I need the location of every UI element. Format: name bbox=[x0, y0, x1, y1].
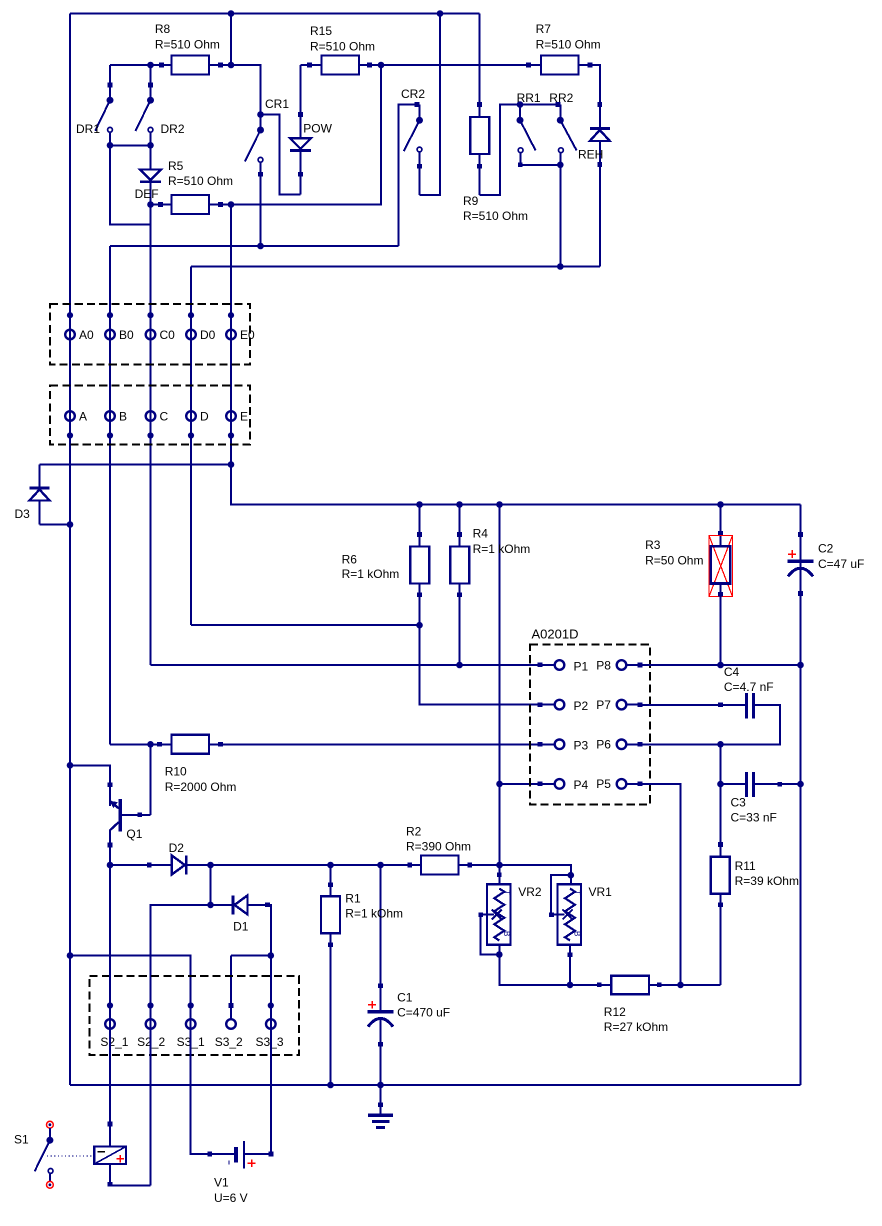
wire rail D3 row bbox=[40, 464, 232, 466]
wire S2_1 column to relay bbox=[108, 865, 113, 1147]
label REH bbox=[578, 148, 603, 162]
plus C2 bbox=[788, 550, 796, 558]
switch CR1 bbox=[245, 115, 264, 247]
capacitor C1 bbox=[368, 865, 394, 1085]
svg-text:R12: R12 bbox=[604, 1005, 626, 1019]
svg-text:R=510 Ohm: R=510 Ohm bbox=[168, 174, 233, 188]
resistor R7 bbox=[541, 56, 579, 75]
wire VR1 top bbox=[500, 865, 571, 884]
pin D bbox=[186, 411, 196, 438]
svg-text:R=510 Ohm: R=510 Ohm bbox=[463, 209, 528, 223]
node rail junction R6 bbox=[416, 501, 423, 508]
switch RR2 bbox=[557, 105, 577, 165]
relay K1 bbox=[94, 1147, 126, 1165]
label P6 bbox=[596, 738, 611, 752]
diode REH bbox=[590, 129, 610, 267]
svg-text:C2: C2 bbox=[818, 542, 834, 556]
svg-text:E: E bbox=[240, 410, 248, 424]
svg-text:P2: P2 bbox=[574, 699, 589, 713]
wire P6 row bbox=[640, 743, 721, 745]
wire S2_2 column to relay loop bbox=[150, 1024, 152, 1185]
svg-text:R1: R1 bbox=[345, 892, 361, 906]
svg-text:T: T bbox=[573, 890, 582, 895]
label T VR2 bbox=[502, 890, 511, 895]
label RR2 bbox=[549, 91, 573, 105]
label R7 bbox=[536, 22, 552, 36]
label C=33 nF bbox=[731, 811, 777, 825]
ground bbox=[368, 1085, 393, 1128]
svg-text:P1: P1 bbox=[574, 659, 589, 673]
node R3 bottom junction bbox=[717, 662, 724, 669]
label C bbox=[160, 410, 169, 424]
label R=50 Ohm bbox=[645, 554, 703, 568]
wire DR1-DR2 bottom link bbox=[110, 144, 151, 146]
label R12 bbox=[604, 1005, 626, 1019]
label U=6 V bbox=[214, 1191, 248, 1205]
wire R8 right pin bbox=[209, 63, 231, 68]
label R=390 Ohm bbox=[406, 840, 471, 854]
diode POW bbox=[290, 65, 311, 194]
wire CR2 top feed bbox=[399, 102, 420, 246]
label Q1 bbox=[126, 827, 142, 841]
node D1 leg junction bbox=[268, 952, 275, 959]
wire R8 junction to CR1 bbox=[231, 65, 261, 115]
svg-text:D1: D1 bbox=[233, 920, 249, 934]
svg-text:S1: S1 bbox=[14, 1133, 29, 1147]
wire R10 right pin bbox=[209, 742, 223, 747]
node R15 right junction bbox=[378, 62, 385, 69]
label CR2 bbox=[401, 87, 425, 101]
capacitor C3 bbox=[721, 772, 801, 797]
wire R7 left pin bbox=[526, 63, 541, 68]
node R8 right junction bbox=[228, 62, 235, 69]
wire supply rail bbox=[231, 465, 801, 505]
wire P5 row down bbox=[640, 784, 681, 985]
label R10 bbox=[165, 765, 187, 779]
pin S3_1 bbox=[186, 1002, 196, 1028]
node D2-D1 junction bbox=[207, 862, 214, 869]
resistor R10 bbox=[172, 735, 210, 754]
svg-text:R2: R2 bbox=[406, 825, 422, 839]
label POW bbox=[303, 122, 332, 136]
wire D1 branch left bbox=[151, 905, 211, 1024]
wire RR top link bbox=[520, 102, 560, 107]
node C3 left junction bbox=[717, 781, 724, 788]
node Q1 collector junction on border bbox=[67, 762, 74, 769]
pin S3_2 bbox=[226, 1003, 236, 1029]
wire VR2 bottom to R12 row bbox=[499, 955, 570, 985]
label P3 bbox=[574, 739, 589, 753]
svg-text:C1: C1 bbox=[397, 991, 413, 1005]
label D bbox=[200, 410, 209, 424]
transistor Q1 bbox=[108, 765, 151, 865]
wire R5 left pin bbox=[151, 202, 172, 207]
svg-text:R=27 kOhm: R=27 kOhm bbox=[604, 1020, 668, 1034]
wire RR2 bottom down bbox=[559, 165, 561, 267]
svg-text:C=33 nF: C=33 nF bbox=[731, 811, 777, 825]
svg-text:A0201D: A0201D bbox=[532, 627, 579, 642]
svg-text:REH: REH bbox=[578, 148, 603, 162]
svg-text:T: T bbox=[502, 890, 511, 895]
wire S3_2 jog bbox=[231, 955, 271, 957]
node R8 left junction bbox=[147, 62, 154, 69]
plus C1 bbox=[368, 1001, 376, 1009]
pin B0 bbox=[105, 312, 115, 339]
svg-text:C=4.7 nF: C=4.7 nF bbox=[724, 680, 774, 694]
label R=39 kOhm bbox=[735, 874, 799, 888]
node R10 left junction bbox=[147, 741, 154, 748]
label C=470 uF bbox=[397, 1006, 450, 1020]
svg-text:P5: P5 bbox=[596, 777, 611, 791]
svg-text:C=47 uF: C=47 uF bbox=[818, 557, 864, 571]
node rail junction R3 bbox=[717, 501, 724, 508]
wire P4 row bbox=[500, 782, 543, 787]
svg-text:R11: R11 bbox=[735, 859, 756, 873]
label RR1 bbox=[517, 91, 541, 105]
node D1 left junction bbox=[207, 902, 214, 909]
svg-text:VR1: VR1 bbox=[589, 885, 613, 899]
node DR1 bottom bbox=[107, 142, 114, 149]
label B VR1 bbox=[573, 931, 582, 936]
plus V1 bbox=[248, 1160, 256, 1168]
svg-text:D2: D2 bbox=[169, 841, 185, 855]
svg-text:B: B bbox=[573, 931, 582, 936]
label A bbox=[79, 410, 87, 424]
label R6 bbox=[342, 553, 358, 567]
pin P1 bbox=[540, 660, 564, 670]
resistor R5 bbox=[172, 195, 210, 214]
label R5 bbox=[168, 159, 184, 173]
wire R15 right pin bbox=[359, 63, 381, 68]
wire D1 right bbox=[248, 903, 271, 956]
node top rail junction x440 bbox=[437, 10, 444, 17]
label S3_1 bbox=[177, 1035, 205, 1049]
node RR1 top junction bbox=[517, 101, 524, 108]
node R1 top junction bbox=[327, 862, 334, 869]
node C1 top junction bbox=[377, 862, 384, 869]
diode D2 bbox=[172, 856, 187, 875]
label R11 bbox=[735, 859, 756, 873]
label DR1 bbox=[76, 122, 100, 136]
wire relay bottom loop bbox=[108, 1164, 151, 1187]
pin P5 bbox=[617, 779, 643, 789]
svg-text:R=39 kOhm: R=39 kOhm bbox=[735, 874, 799, 888]
svg-text:R=510 Ohm: R=510 Ohm bbox=[310, 39, 375, 53]
wire R9 bottom to RR feed bbox=[480, 105, 521, 195]
label R=1 kOhm bbox=[473, 542, 531, 556]
svg-text:DEF: DEF bbox=[135, 187, 159, 201]
svg-text:R=1 kOhm: R=1 kOhm bbox=[473, 542, 531, 556]
node R2 right junction bbox=[496, 862, 503, 869]
svg-text:R=2000 Ohm: R=2000 Ohm bbox=[165, 780, 237, 794]
label R=1 kOhm bbox=[342, 567, 400, 581]
node VR2 bottom junction bbox=[496, 951, 503, 958]
wire column D bbox=[190, 267, 192, 626]
label V1 bbox=[214, 1176, 229, 1190]
svg-text:CR1: CR1 bbox=[265, 97, 289, 111]
label P2 bbox=[574, 699, 589, 713]
wire R9 bottom pin bbox=[477, 154, 482, 195]
wire bottom ground rail bbox=[70, 1084, 801, 1086]
label S2_1 bbox=[100, 1035, 128, 1049]
wire R12 junction to R11 leg bbox=[681, 984, 721, 986]
label P8 bbox=[596, 658, 611, 672]
node top rail junction at R8 column bbox=[228, 10, 235, 17]
wire rail to column D bbox=[191, 266, 600, 268]
label P1 bbox=[574, 659, 589, 673]
svg-text:R=50 Ohm: R=50 Ohm bbox=[645, 554, 703, 568]
label B VR2 bbox=[502, 931, 511, 936]
wire mid vertical to R2 bbox=[499, 505, 501, 866]
pin P6 bbox=[617, 740, 643, 750]
wire D2 junction down bbox=[210, 865, 212, 905]
label R=510 Ohm bbox=[536, 38, 601, 52]
label C0 bbox=[160, 328, 176, 342]
wire P7 row to C4 bbox=[640, 703, 746, 708]
wire P1 row bbox=[151, 663, 543, 668]
wire top rail bbox=[70, 13, 480, 15]
svg-text:VR2: VR2 bbox=[518, 885, 542, 899]
label R=510 Ohm bbox=[310, 39, 375, 53]
node RR2 bottom junction bbox=[557, 162, 564, 169]
svg-text:R=510 Ohm: R=510 Ohm bbox=[536, 38, 601, 52]
svg-text:R6: R6 bbox=[342, 553, 358, 567]
node D3-border junction bbox=[67, 521, 74, 528]
svg-text:S3_2: S3_2 bbox=[215, 1035, 243, 1049]
diode D1 bbox=[211, 895, 248, 914]
svg-text:B: B bbox=[119, 410, 127, 424]
svg-text:S2_1: S2_1 bbox=[100, 1035, 128, 1049]
label R=2000 Ohm bbox=[165, 780, 237, 794]
wire battery plus to S3_3 bbox=[245, 1024, 273, 1157]
label C3 bbox=[731, 796, 747, 810]
wire R6 bottom to column D bbox=[191, 624, 420, 626]
svg-text:R3: R3 bbox=[645, 538, 661, 552]
svg-text:S3_3: S3_3 bbox=[256, 1035, 284, 1049]
label B bbox=[119, 410, 127, 424]
svg-text:R=1 kOhm: R=1 kOhm bbox=[342, 567, 400, 581]
svg-text:C0: C0 bbox=[160, 328, 176, 342]
label C4 bbox=[724, 665, 740, 679]
diode DEF bbox=[140, 145, 161, 204]
label VR1 bbox=[589, 885, 613, 899]
svg-text:DR2: DR2 bbox=[161, 122, 185, 136]
node P6-C4 junction bbox=[717, 741, 724, 748]
label D3 bbox=[15, 507, 31, 521]
switch DR2 bbox=[136, 65, 155, 145]
wire R8 right to top rail bbox=[230, 14, 232, 66]
wire DR1 leg down to R5 left bbox=[110, 145, 151, 224]
capacitor C2 bbox=[788, 505, 814, 666]
pin P4 bbox=[540, 779, 564, 789]
pin B bbox=[105, 411, 115, 438]
svg-text:R=390 Ohm: R=390 Ohm bbox=[406, 840, 471, 854]
node border junction y955 bbox=[67, 952, 74, 959]
svg-text:RR2: RR2 bbox=[549, 91, 573, 105]
label R=510 Ohm bbox=[155, 38, 220, 52]
switch CR2 bbox=[404, 105, 423, 195]
battery V1 bbox=[229, 1141, 244, 1168]
potentiometer VR1 bbox=[549, 875, 581, 985]
node R1 bottom junction bbox=[327, 1082, 334, 1089]
wire CR2 bottom to top rail bbox=[420, 14, 441, 195]
node C2 bottom junction bbox=[797, 662, 804, 669]
svg-text:C3: C3 bbox=[731, 796, 747, 810]
node rail junction R4 bbox=[456, 501, 463, 508]
label P5 bbox=[596, 777, 611, 791]
resistor R12 bbox=[611, 976, 649, 994]
label R1 bbox=[345, 892, 361, 906]
resistor R4 bbox=[450, 505, 469, 666]
svg-text:CR2: CR2 bbox=[401, 87, 425, 101]
label C=47 uF bbox=[818, 557, 864, 571]
svg-text:C4: C4 bbox=[724, 665, 740, 679]
switch S1 top terminal bbox=[47, 1121, 54, 1128]
resistor R2 bbox=[421, 856, 459, 875]
wire R12 right pin bbox=[649, 983, 681, 988]
wire border to Q1 top bbox=[70, 765, 112, 802]
label P4 bbox=[574, 778, 589, 792]
node R12 right junction bbox=[677, 982, 684, 989]
wire column B upper bbox=[109, 246, 111, 744]
wire R2 right pin bbox=[459, 863, 500, 868]
switch S1 bottom terminal bbox=[47, 1181, 54, 1188]
svg-text:R8: R8 bbox=[155, 22, 171, 36]
svg-text:C: C bbox=[160, 410, 169, 424]
wire R5 right pin bbox=[209, 202, 231, 207]
diode D3 bbox=[30, 465, 50, 525]
svg-text:P3: P3 bbox=[574, 739, 589, 753]
svg-text:V1: V1 bbox=[214, 1176, 229, 1190]
node P4 junction bbox=[496, 781, 503, 788]
label R2 bbox=[406, 825, 422, 839]
label B0 bbox=[119, 328, 134, 342]
svg-text:DR1: DR1 bbox=[76, 122, 100, 136]
node R5 left junction bbox=[147, 201, 154, 208]
resistor R11 bbox=[711, 784, 730, 985]
wire R10 left pin bbox=[151, 742, 172, 747]
resistor R3 bbox=[709, 505, 733, 666]
resistor R15 bbox=[322, 56, 360, 75]
svg-text:RR1: RR1 bbox=[517, 91, 541, 105]
connector A0201D box bbox=[530, 645, 650, 805]
svg-text:R15: R15 bbox=[310, 24, 332, 38]
node C3 right junction bbox=[797, 781, 804, 788]
switch S1 bbox=[35, 1128, 54, 1182]
wire right border bbox=[800, 505, 802, 1086]
label S3_3 bbox=[256, 1035, 284, 1049]
node R6 bottom junction bbox=[416, 622, 423, 629]
wire Q1 base to R10 bbox=[150, 744, 152, 815]
pin E bbox=[226, 411, 236, 438]
svg-text:P7: P7 bbox=[596, 698, 611, 712]
label R=27 kOhm bbox=[604, 1020, 668, 1034]
label E bbox=[240, 410, 248, 424]
node R5 right junction bbox=[228, 201, 235, 208]
potentiometer VR2 bbox=[479, 865, 511, 955]
wire C4 right loop to P6 row bbox=[721, 705, 781, 745]
wire D2 right bbox=[188, 864, 211, 866]
pin S2_2 bbox=[146, 1002, 156, 1028]
svg-text:B: B bbox=[502, 931, 511, 936]
plus relay bbox=[117, 1155, 125, 1163]
svg-text:A: A bbox=[79, 410, 87, 424]
label DR2 bbox=[161, 122, 185, 136]
node CR1 bottom junction bbox=[257, 243, 264, 250]
switch DR1 bbox=[95, 65, 113, 145]
wire left border / column A bbox=[69, 14, 71, 1086]
label S2_2 bbox=[137, 1035, 165, 1049]
svg-text:POW: POW bbox=[303, 122, 332, 136]
label R3 bbox=[645, 538, 661, 552]
pin C0 bbox=[146, 312, 156, 339]
wire R8 row left bbox=[110, 63, 172, 68]
svg-text:R5: R5 bbox=[168, 159, 184, 173]
label C=4.7 nF bbox=[724, 680, 774, 694]
svg-text:Q1: Q1 bbox=[126, 827, 142, 841]
wire CR1 to POW bottom bbox=[261, 115, 301, 195]
pin P2 bbox=[540, 700, 564, 710]
wire R5 right to R15 right leg bbox=[231, 65, 381, 205]
svg-text:R=510 Ohm: R=510 Ohm bbox=[155, 38, 220, 52]
pin S2_1 bbox=[105, 1002, 115, 1028]
label R=510 Ohm bbox=[168, 174, 233, 188]
wire D2 row to R1 R2 bbox=[211, 863, 422, 868]
label R4 bbox=[473, 526, 489, 540]
node rail junction mid leg bbox=[496, 501, 503, 508]
label CR1 bbox=[265, 97, 289, 111]
wire R15 left pin bbox=[301, 63, 322, 68]
svg-text:A0: A0 bbox=[79, 328, 94, 342]
label R9 bbox=[463, 194, 479, 208]
svg-text:P6: P6 bbox=[596, 738, 611, 752]
svg-text:C=470 uF: C=470 uF bbox=[397, 1006, 450, 1020]
label R15 bbox=[310, 24, 332, 38]
svg-text:D3: D3 bbox=[15, 507, 31, 521]
pin D0 bbox=[186, 312, 196, 339]
svg-text:R4: R4 bbox=[473, 526, 489, 540]
svg-text:U=6 V: U=6 V bbox=[214, 1191, 248, 1205]
wire column B corner to R10 bbox=[110, 743, 151, 745]
label R=510 Ohm bbox=[463, 209, 528, 223]
svg-text:R10: R10 bbox=[165, 765, 187, 779]
label S1 bbox=[14, 1133, 29, 1147]
svg-text:R7: R7 bbox=[536, 22, 552, 36]
resistor R6 bbox=[410, 505, 429, 626]
pin C bbox=[146, 411, 156, 438]
wire rail to S3_1 bbox=[70, 956, 191, 1025]
label P7 bbox=[596, 698, 611, 712]
wire P8 row bbox=[640, 664, 801, 666]
wire R7 right pin bbox=[579, 63, 603, 129]
node DR2 bottom bbox=[147, 142, 154, 149]
pin E0 bbox=[226, 312, 236, 339]
label E0 bbox=[240, 328, 255, 342]
pin A bbox=[65, 411, 75, 438]
label T VR1 bbox=[573, 890, 582, 895]
svg-text:B0: B0 bbox=[119, 328, 134, 342]
label D2 bbox=[169, 841, 185, 855]
svg-text:R=1 kOhm: R=1 kOhm bbox=[345, 907, 403, 921]
node Q1 emitter junction bbox=[107, 862, 114, 869]
resistor R9 bbox=[470, 117, 489, 154]
label C1 bbox=[397, 991, 413, 1005]
svg-text:D: D bbox=[200, 410, 209, 424]
wire column E upper bbox=[230, 205, 232, 465]
wire R12 left pin bbox=[570, 983, 611, 988]
pin P7 bbox=[617, 700, 643, 710]
wire D2 left bbox=[110, 863, 172, 868]
